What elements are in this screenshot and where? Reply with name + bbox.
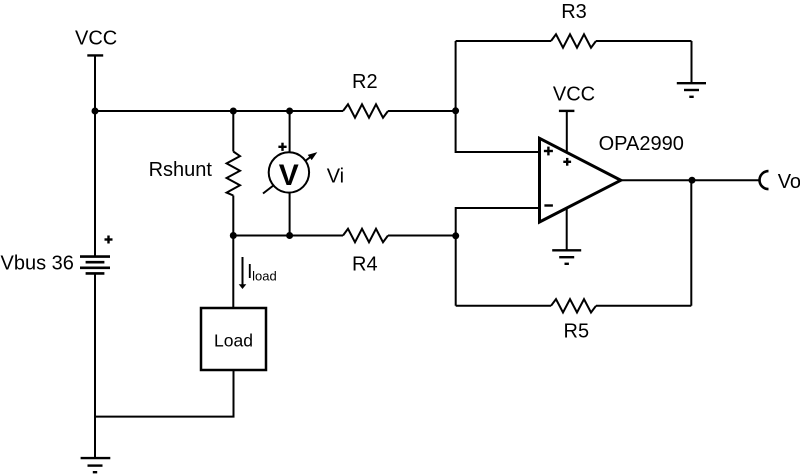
op-amp U1 OPA2990 triangle	[540, 138, 621, 222]
wire: Rshunt top stub	[232, 111, 234, 152]
svg-text:R5: R5	[564, 321, 590, 343]
wire: left rail (battery to ground)	[94, 273, 96, 458]
wire: top bus (R2 to feedback node)	[388, 110, 456, 112]
node: voltmeter top junction	[286, 108, 293, 115]
wire: R3 feedback loop left riser	[455, 41, 457, 111]
node: output / feedback junction	[689, 177, 696, 184]
resistor R2	[343, 104, 388, 117]
power flag VCC (left rail)	[87, 55, 103, 111]
wire: Rshunt bottom to load	[232, 236, 234, 309]
node: R2 / R3 / op-amp input junction	[452, 107, 459, 114]
battery positive terminal mark +	[105, 236, 113, 244]
wire: R4 to feedback node	[388, 235, 456, 237]
svg-text:Vbus 36: Vbus 36	[1, 253, 74, 275]
resistor R3	[551, 34, 596, 47]
node: R4 / inverting input / R5 junction	[452, 232, 459, 239]
svg-text:VCC: VCC	[553, 83, 595, 105]
wire: R5 feedback right riser to output	[690, 180, 692, 306]
op-amp U1 noninverting pin mark +	[544, 147, 553, 156]
wire: R5 feedback bottom right	[596, 305, 691, 307]
battery Vbus 36	[80, 257, 110, 274]
load LOAD1 box	[201, 308, 266, 370]
power flag VCC (op-amp supply)	[559, 111, 575, 153]
svg-text:load: load	[252, 269, 277, 284]
svg-text:R3: R3	[561, 1, 587, 23]
wire: R5 feedback bottom left	[456, 305, 551, 307]
wire: op-amp noninverting input	[456, 111, 540, 152]
wire: load bottom	[95, 370, 234, 417]
svg-text:Vo: Vo	[778, 171, 800, 193]
node: Rshunt top junction	[230, 108, 237, 115]
node: voltmeter bottom junction	[286, 232, 293, 239]
svg-text:Rshunt: Rshunt	[149, 159, 213, 181]
port Vo	[760, 171, 769, 189]
wire: R3 feedback loop top left	[456, 40, 551, 42]
resistor R4	[343, 229, 388, 242]
svg-text:Load: Load	[214, 330, 253, 350]
wire: top bus (left rail to R2)	[95, 110, 343, 112]
wire: op-amp V- pin to ground	[566, 208, 568, 250]
svg-text:V: V	[279, 159, 299, 192]
wire: op-amp output	[621, 179, 761, 181]
node: left rail / top bus junction	[92, 108, 99, 115]
wire: R5 feedback left drop	[455, 236, 457, 306]
current arrow Iload	[239, 257, 247, 289]
wire: R4 net (voltmeter bottom to R4)	[233, 235, 343, 237]
ground (main)	[81, 458, 111, 472]
wire: Rshunt bottom stub	[232, 196, 234, 236]
voltmeter VM1	[263, 111, 317, 236]
ground (op-amp V-)	[552, 250, 581, 263]
svg-text:OPA2990: OPA2990	[599, 133, 684, 155]
op-amp U1 V+ supply pin mark +	[563, 158, 571, 166]
label Iload	[247, 261, 277, 284]
svg-text:Vi: Vi	[327, 166, 344, 188]
op-amp U1 inverting pin mark -	[544, 204, 553, 206]
resistor R5	[551, 299, 596, 312]
wire: R3 to ground drop	[691, 41, 693, 83]
svg-text:VCC: VCC	[75, 27, 117, 49]
wire: op-amp inverting input	[456, 208, 540, 236]
wire: R3 feedback loop top right	[596, 40, 692, 42]
svg-text:R2: R2	[352, 71, 378, 93]
svg-text:R4: R4	[352, 253, 378, 275]
resistor Rshunt	[227, 152, 240, 196]
wire: left rail (top bus to battery)	[94, 111, 96, 257]
node: Rshunt bottom junction	[230, 232, 237, 239]
ground (R3 return)	[677, 83, 706, 97]
